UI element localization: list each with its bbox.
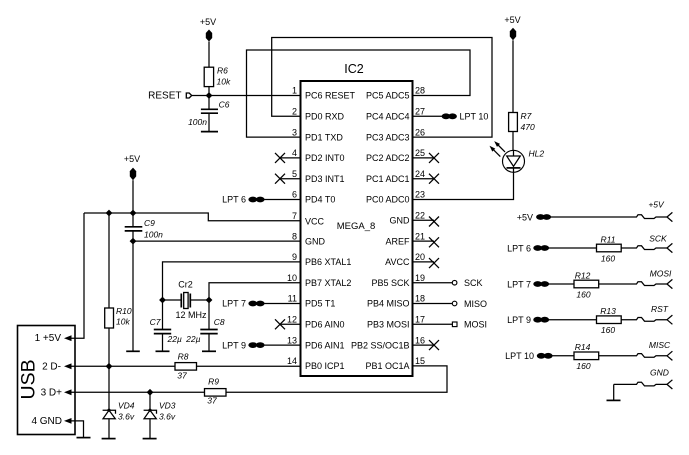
svg-text:10k: 10k: [116, 317, 130, 327]
svg-text:PD3 INT1: PD3 INT1: [305, 174, 345, 184]
svg-text:100n: 100n: [144, 230, 163, 240]
svg-text:PD0 RXD: PD0 RXD: [305, 112, 345, 122]
svg-text:AREF: AREF: [385, 236, 410, 246]
svg-text:GND: GND: [390, 216, 411, 226]
svg-text:25: 25: [415, 148, 425, 158]
svg-text:RESET: RESET: [148, 91, 181, 102]
svg-text:PB2 SS/OC1B: PB2 SS/OC1B: [351, 340, 410, 350]
svg-text:RST: RST: [651, 304, 669, 314]
svg-text:C8: C8: [214, 317, 225, 327]
svg-text:GND: GND: [650, 368, 669, 378]
svg-text:PD2 INT0: PD2 INT0: [305, 153, 345, 163]
svg-text:R9: R9: [208, 377, 219, 387]
svg-text:6: 6: [292, 190, 297, 200]
svg-text:PC1 ADC1: PC1 ADC1: [366, 174, 410, 184]
svg-text:22: 22: [415, 211, 425, 221]
svg-text:MISO: MISO: [464, 299, 487, 309]
svg-text:26: 26: [415, 127, 425, 137]
svg-text:VD4: VD4: [118, 401, 135, 411]
svg-text:15: 15: [415, 356, 425, 366]
svg-text:20: 20: [415, 252, 425, 262]
svg-text:PC4 ADC4: PC4 ADC4: [366, 112, 410, 122]
svg-text:12: 12: [287, 315, 297, 325]
svg-text:R13: R13: [600, 306, 616, 316]
svg-text:+5V: +5V: [124, 154, 140, 164]
svg-text:PB5 SCK: PB5 SCK: [371, 278, 409, 288]
svg-text:PB7 XTAL2: PB7 XTAL2: [305, 278, 351, 288]
svg-text:PB0 ICP1: PB0 ICP1: [305, 361, 345, 371]
svg-text:LPT 9: LPT 9: [507, 315, 531, 325]
svg-text:160: 160: [601, 325, 615, 335]
svg-text:MISC: MISC: [649, 340, 671, 350]
svg-text:LPT 7: LPT 7: [507, 279, 531, 289]
svg-text:IC2: IC2: [344, 62, 364, 76]
svg-text:PC5 ADC5: PC5 ADC5: [366, 91, 410, 101]
svg-text:2: 2: [292, 107, 297, 117]
svg-text:22µ: 22µ: [167, 334, 182, 344]
svg-text:MEGA_8: MEGA_8: [337, 221, 376, 232]
svg-text:PB1 OC1A: PB1 OC1A: [365, 361, 409, 371]
svg-text:3: 3: [292, 127, 297, 137]
svg-text:24: 24: [415, 169, 425, 179]
svg-text:28: 28: [415, 86, 425, 96]
svg-text:23: 23: [415, 190, 425, 200]
svg-text:21: 21: [415, 231, 425, 241]
svg-text:+5V: +5V: [648, 199, 665, 209]
svg-text:SCK: SCK: [464, 278, 483, 288]
svg-text:PD6 AIN0: PD6 AIN0: [305, 320, 345, 330]
svg-text:R14: R14: [575, 342, 591, 352]
svg-text:100n: 100n: [188, 117, 207, 127]
svg-text:PD5 T1: PD5 T1: [305, 299, 335, 309]
svg-text:MOSI: MOSI: [650, 269, 672, 279]
svg-text:R6: R6: [217, 66, 228, 76]
svg-text:16: 16: [415, 335, 425, 345]
svg-text:R7: R7: [521, 111, 532, 121]
svg-text:13: 13: [287, 335, 297, 345]
svg-text:19: 19: [415, 273, 425, 283]
svg-text:R8: R8: [178, 352, 189, 362]
svg-text:HL2: HL2: [529, 149, 545, 159]
svg-text:R10: R10: [116, 306, 132, 316]
svg-text:PD4 T0: PD4 T0: [305, 195, 335, 205]
svg-text:VCC: VCC: [305, 217, 325, 227]
svg-text:PC3 ADC3: PC3 ADC3: [366, 132, 410, 142]
svg-text:3 D+: 3 D+: [41, 388, 63, 399]
svg-text:GND: GND: [305, 236, 326, 246]
svg-text:Cr2: Cr2: [178, 280, 193, 290]
svg-text:9: 9: [292, 252, 297, 262]
svg-text:SCK: SCK: [649, 234, 667, 244]
svg-text:37: 37: [207, 396, 217, 406]
svg-text:PC2 ADC2: PC2 ADC2: [366, 153, 410, 163]
svg-text:C9: C9: [144, 218, 155, 228]
svg-text:LPT 10: LPT 10: [505, 351, 534, 361]
svg-text:7: 7: [292, 211, 297, 221]
svg-text:LPT 6: LPT 6: [222, 195, 246, 205]
svg-text:PD1 TXD: PD1 TXD: [305, 132, 343, 142]
svg-text:3.6v: 3.6v: [118, 411, 135, 421]
svg-text:USB: USB: [17, 359, 39, 399]
svg-text:37: 37: [177, 371, 187, 381]
svg-text:160: 160: [576, 289, 590, 299]
svg-text:C6: C6: [219, 100, 230, 110]
svg-text:LPT 6: LPT 6: [507, 243, 531, 253]
svg-text:VD3: VD3: [159, 401, 176, 411]
svg-text:LPT 9: LPT 9: [222, 340, 246, 350]
svg-text:PD6 AIN1: PD6 AIN1: [305, 340, 345, 350]
svg-text:470: 470: [521, 122, 535, 132]
svg-text:12 MHz: 12 MHz: [175, 310, 207, 320]
svg-text:AVCC: AVCC: [385, 257, 410, 267]
svg-text:8: 8: [292, 231, 297, 241]
svg-text:PC0 ADC0: PC0 ADC0: [366, 195, 410, 205]
svg-text:3.6v: 3.6v: [159, 411, 176, 421]
svg-text:+5V: +5V: [200, 17, 216, 27]
svg-text:4 GND: 4 GND: [31, 416, 62, 427]
svg-text:C7: C7: [150, 317, 161, 327]
svg-text:18: 18: [415, 294, 425, 304]
svg-text:MOSI: MOSI: [464, 320, 487, 330]
svg-text:10: 10: [287, 273, 297, 283]
svg-text:1: 1: [292, 86, 297, 96]
svg-text:R12: R12: [575, 270, 591, 280]
svg-text:R11: R11: [601, 234, 616, 244]
svg-text:160: 160: [576, 361, 590, 371]
svg-text:LPT 10: LPT 10: [460, 112, 489, 122]
svg-text:10k: 10k: [217, 77, 231, 87]
svg-text:17: 17: [415, 315, 425, 325]
svg-text:LPT 7: LPT 7: [222, 299, 246, 309]
svg-text:4: 4: [292, 148, 297, 158]
svg-text:PB4 MISO: PB4 MISO: [367, 299, 410, 309]
svg-text:1 +5V: 1 +5V: [35, 333, 62, 344]
svg-text:PB3 MOSI: PB3 MOSI: [367, 320, 410, 330]
svg-text:PB6 XTAL1: PB6 XTAL1: [305, 257, 351, 267]
svg-text:160: 160: [601, 253, 615, 263]
svg-text:2 D-: 2 D-: [42, 362, 61, 373]
svg-text:22µ: 22µ: [185, 334, 200, 344]
svg-text:27: 27: [415, 107, 425, 117]
svg-text:+5V: +5V: [504, 15, 520, 25]
svg-text:5: 5: [292, 169, 297, 179]
svg-text:+5V: +5V: [517, 212, 533, 222]
svg-text:PC6 RESET: PC6 RESET: [305, 91, 356, 101]
svg-text:11: 11: [288, 294, 297, 304]
svg-text:14: 14: [287, 356, 297, 366]
